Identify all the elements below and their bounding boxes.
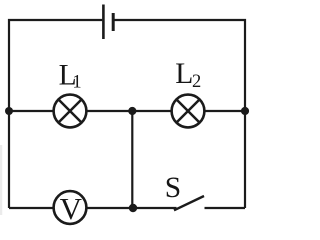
wire switch to right corner: [205, 207, 246, 209]
battery long plate (left): [102, 5, 105, 40]
wire voltmeter to switch: [86, 207, 176, 209]
wire middle branch left segment: [9, 110, 54, 112]
svg-text:V: V: [60, 191, 83, 226]
label L2: [175, 58, 201, 92]
wire middle vertical from node B to node D: [131, 111, 133, 208]
node C junction dot right: [241, 107, 249, 115]
wire bottom-left segment to voltmeter: [9, 207, 54, 209]
lamp L2 circle: [172, 95, 205, 128]
node B junction dot middle: [128, 107, 136, 115]
wire top-left from left corner to battery: [9, 20, 102, 208]
svg-text:1: 1: [72, 72, 81, 92]
lamp L2 cross: [176, 99, 199, 122]
wire middle branch right segment: [204, 110, 245, 112]
lamp L1 circle: [54, 95, 87, 128]
node D junction dot bottom: [129, 204, 137, 212]
switch S lever (open): [174, 196, 204, 210]
voltmeter U1 circle: [54, 191, 87, 224]
scan smudge left margin: [0, 145, 2, 215]
wire top-right from battery to right corner: [115, 20, 246, 208]
battery short plate (right): [112, 13, 115, 31]
node A junction dot left: [5, 107, 13, 115]
svg-text:L: L: [175, 58, 193, 90]
svg-text:2: 2: [192, 72, 201, 92]
svg-text:S: S: [165, 172, 181, 204]
label L1: [59, 59, 82, 92]
lamp L1 cross: [58, 99, 81, 122]
wire between L1 and L2: [86, 110, 171, 112]
